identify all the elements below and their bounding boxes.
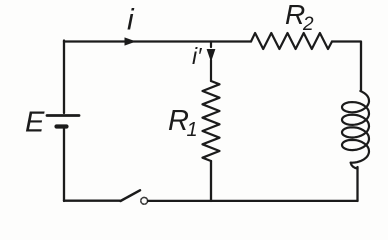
resistor R1 <box>203 81 220 161</box>
battery E long plate <box>47 114 79 117</box>
current arrow i' on middle branch <box>207 49 216 62</box>
wire middle branch lower <box>210 161 212 201</box>
wire middle branch to R1 <box>210 60 212 81</box>
switch contact circle <box>141 197 148 204</box>
battery E short plate <box>57 124 67 128</box>
wire top from left corner to R2 <box>64 40 251 42</box>
wire right side lower <box>356 167 358 201</box>
resistor R2 <box>251 33 332 49</box>
svg-text:i: i <box>127 4 135 37</box>
svg-text:E: E <box>25 107 45 139</box>
wire left side lower <box>63 128 65 201</box>
inductor L coil <box>342 91 369 169</box>
current arrow i on top wire <box>125 37 137 45</box>
wire bottom left to switch <box>64 200 120 202</box>
node junction top (middle branch) <box>210 42 212 48</box>
svg-text:1: 1 <box>187 119 198 141</box>
wire top right segment R2 to corner <box>332 42 361 91</box>
svg-text:i′: i′ <box>192 43 202 69</box>
svg-text:2: 2 <box>302 14 314 35</box>
wire left side upper <box>63 41 65 114</box>
wire bottom switch to right corner <box>148 200 358 202</box>
switch blade <box>121 190 141 201</box>
